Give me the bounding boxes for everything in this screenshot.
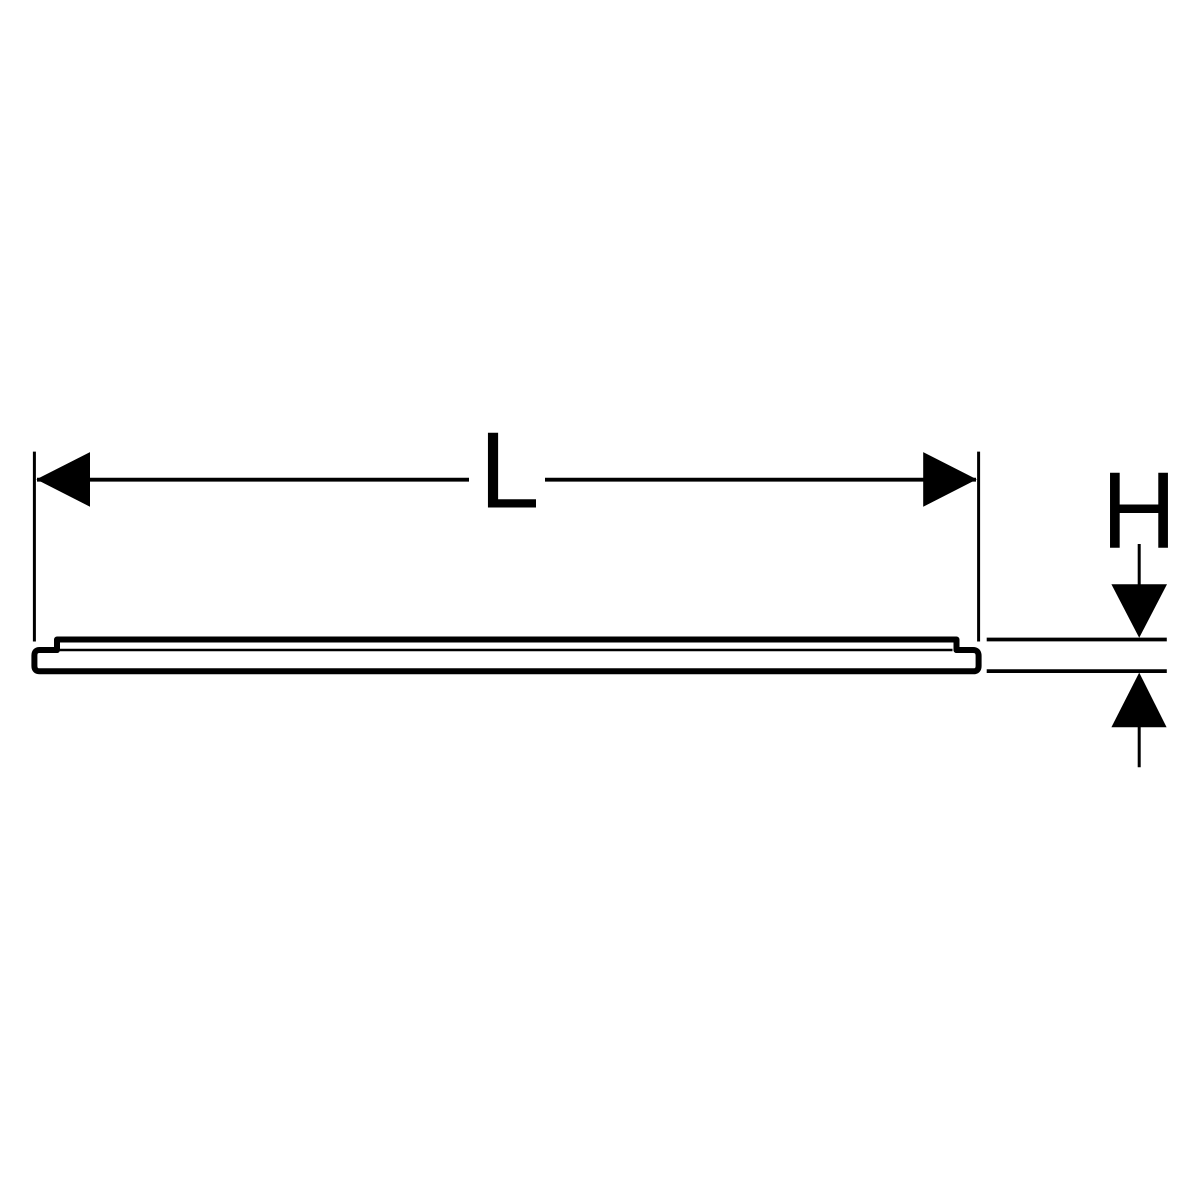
H dimension upper leader line bbox=[1138, 544, 1141, 600]
profile top surface bbox=[57, 640, 957, 651]
svg-text:L: L bbox=[479, 409, 540, 531]
extension line right bbox=[977, 452, 980, 642]
extension line left bbox=[33, 452, 36, 642]
profile seam line bbox=[60, 649, 953, 651]
H reference line top bbox=[987, 638, 1167, 642]
H dimension lower leader line bbox=[1138, 700, 1141, 767]
profile base outline bbox=[34, 650, 978, 671]
dimension line L left segment bbox=[37, 478, 469, 482]
arrowhead left of L dimension bbox=[36, 452, 90, 507]
arrowhead up of H dimension bbox=[1111, 673, 1166, 728]
dimension line L right segment bbox=[545, 478, 976, 482]
H reference line bottom bbox=[987, 669, 1167, 673]
arrowhead down of H dimension bbox=[1111, 584, 1167, 638]
arrowhead right of L dimension bbox=[923, 452, 977, 507]
